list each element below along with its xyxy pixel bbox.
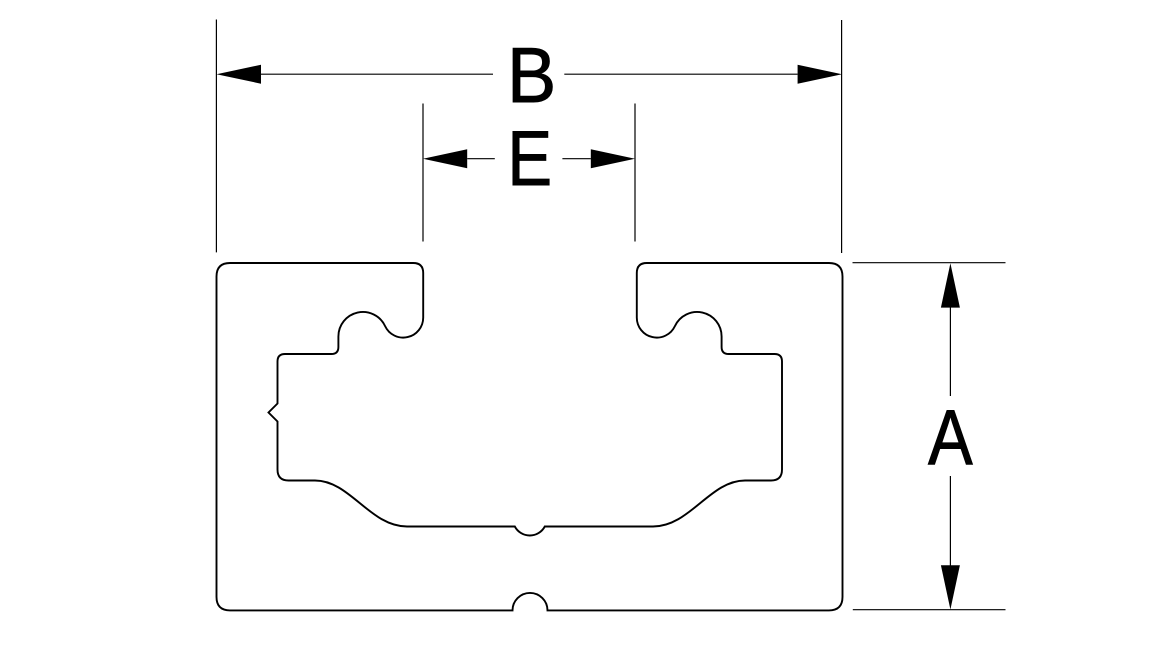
dimension A top extension line — [853, 262, 1006, 264]
dimension E left arrowhead — [423, 149, 467, 168]
dimension A line lower segment — [949, 476, 951, 566]
dimension A bottom arrowhead — [941, 565, 960, 609]
dimension E line left segment — [467, 158, 495, 160]
dimension E right extension line — [634, 104, 636, 242]
dimension B left arrowhead — [217, 65, 262, 84]
dimension A bottom extension line — [853, 609, 1006, 611]
dimension A top arrowhead — [941, 263, 960, 307]
svg-text:B: B — [507, 32, 556, 119]
dimension E line right segment — [562, 158, 590, 160]
dimension E left extension line — [422, 104, 424, 242]
svg-text:A: A — [928, 394, 973, 481]
dimension E right arrowhead — [591, 149, 635, 168]
dimension B line right segment — [564, 73, 797, 75]
svg-text:E: E — [507, 115, 552, 202]
dimension B left extension line — [215, 20, 217, 253]
dimension A line upper segment — [949, 307, 951, 396]
dimension B line left segment — [261, 73, 493, 75]
dimension B right arrowhead — [798, 65, 842, 84]
dimension B right extension line — [841, 20, 843, 253]
extrusion profile outline (outer body with top slot, inner cavity, key notches) — [217, 263, 843, 610]
